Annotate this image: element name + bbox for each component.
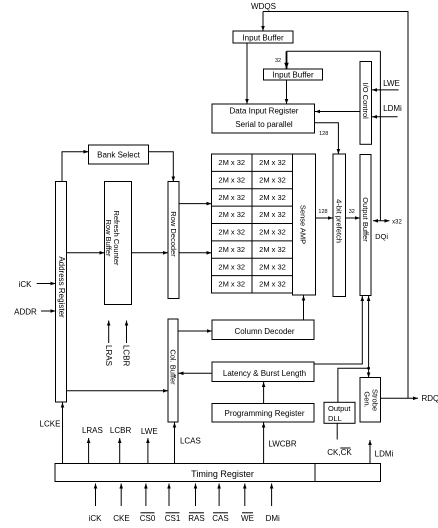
svg-text:Data Input Register: Data Input Register xyxy=(230,107,299,116)
svg-text:CAS: CAS xyxy=(212,514,228,523)
svg-text:Output: Output xyxy=(328,404,351,413)
svg-text:WDQS: WDQS xyxy=(251,2,276,11)
svg-text:LCBR: LCBR xyxy=(110,426,132,435)
svg-text:4-bit prefetch: 4-bit prefetch xyxy=(334,199,343,243)
svg-text:2M x 32: 2M x 32 xyxy=(218,228,245,237)
svg-text:2M x 32: 2M x 32 xyxy=(259,193,286,202)
svg-text:2M x 32: 2M x 32 xyxy=(218,158,245,167)
svg-text:I/O Control: I/O Control xyxy=(361,83,370,120)
svg-text:Gen.: Gen. xyxy=(362,391,371,407)
svg-text:Programming Register: Programming Register xyxy=(224,409,304,418)
svg-text:2M x 32: 2M x 32 xyxy=(259,210,286,219)
svg-text:LWE: LWE xyxy=(383,79,400,88)
svg-text:LCAS: LCAS xyxy=(180,436,201,445)
svg-text:Address Register: Address Register xyxy=(57,256,66,318)
svg-text:CKE: CKE xyxy=(113,514,129,523)
svg-text:CS1: CS1 xyxy=(165,514,181,523)
svg-text:32: 32 xyxy=(275,58,281,64)
svg-text:Col. Buffer: Col. Buffer xyxy=(168,349,177,385)
svg-text:ADDR: ADDR xyxy=(14,308,37,317)
svg-text:Output Buffer: Output Buffer xyxy=(361,197,370,242)
svg-text:2M x 32: 2M x 32 xyxy=(259,158,286,167)
svg-text:32: 32 xyxy=(349,209,355,215)
svg-text:2M x 32: 2M x 32 xyxy=(218,262,245,271)
svg-text:LRAS: LRAS xyxy=(104,345,113,366)
svg-text:iCK: iCK xyxy=(89,514,103,523)
svg-text:Input Buffer: Input Buffer xyxy=(242,34,284,43)
svg-text:Row Decoder: Row Decoder xyxy=(169,211,178,257)
svg-text:DMi: DMi xyxy=(266,514,280,523)
svg-text:Bank Select: Bank Select xyxy=(97,151,140,160)
svg-text:2M x 32: 2M x 32 xyxy=(259,228,286,237)
svg-text:2M x 32: 2M x 32 xyxy=(218,210,245,219)
svg-text:Serial to parallel: Serial to parallel xyxy=(235,120,293,129)
svg-text:Column Decoder: Column Decoder xyxy=(234,327,294,336)
svg-text:2M x 32: 2M x 32 xyxy=(218,193,245,202)
svg-text:iCK: iCK xyxy=(19,280,33,289)
svg-text:LDMi: LDMi xyxy=(375,450,394,459)
svg-text:128: 128 xyxy=(318,209,327,215)
svg-text:LCBR: LCBR xyxy=(122,345,131,367)
svg-text:Latency & Burst Length: Latency & Burst Length xyxy=(223,369,306,378)
svg-text:CK,CK: CK,CK xyxy=(327,448,352,457)
svg-text:2M x 32: 2M x 32 xyxy=(259,175,286,184)
svg-text:x32: x32 xyxy=(392,220,402,226)
svg-text:LWCBR: LWCBR xyxy=(268,440,297,449)
svg-text:LCKE: LCKE xyxy=(40,420,61,429)
svg-text:CS0: CS0 xyxy=(140,514,156,523)
svg-text:LRAS: LRAS xyxy=(82,426,103,435)
svg-text:DLL: DLL xyxy=(328,414,342,423)
svg-text:2M x 32: 2M x 32 xyxy=(218,280,245,289)
svg-text:LDMi: LDMi xyxy=(383,104,402,113)
svg-text:Input Buffer: Input Buffer xyxy=(272,71,314,80)
svg-text:2M x 32: 2M x 32 xyxy=(259,280,286,289)
svg-text:Row Buffer: Row Buffer xyxy=(104,220,113,257)
svg-text:2M x 32: 2M x 32 xyxy=(259,245,286,254)
svg-text:2M x 32: 2M x 32 xyxy=(218,175,245,184)
svg-text:Sense AMP: Sense AMP xyxy=(299,205,308,244)
svg-text:RAS: RAS xyxy=(188,514,204,523)
svg-text:DQi: DQi xyxy=(375,232,388,241)
svg-text:Timing Register: Timing Register xyxy=(191,469,254,479)
svg-text:LWE: LWE xyxy=(141,427,158,436)
svg-text:WE: WE xyxy=(241,514,254,523)
svg-text:128: 128 xyxy=(319,131,328,137)
svg-text:2M x 32: 2M x 32 xyxy=(259,262,286,271)
svg-text:RDQS: RDQS xyxy=(422,394,438,403)
svg-text:2M x 32: 2M x 32 xyxy=(218,245,245,254)
